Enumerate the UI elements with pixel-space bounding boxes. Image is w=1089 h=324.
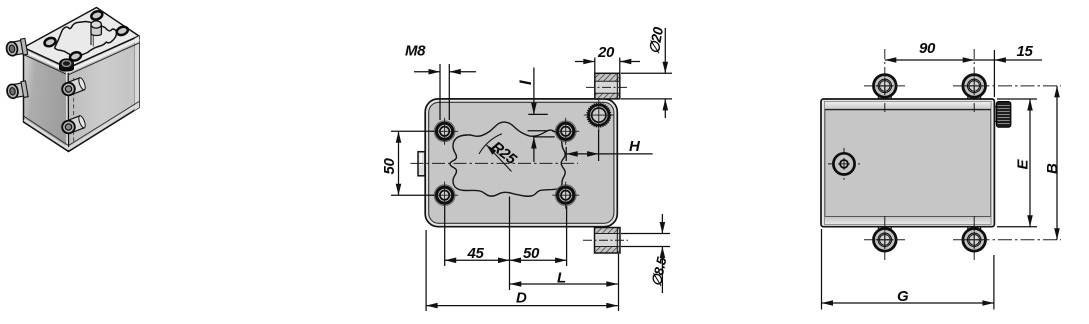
svg-text:L: L [557, 270, 566, 287]
svg-text:I: I [517, 80, 535, 85]
svg-text:20: 20 [597, 44, 615, 61]
svg-text:45: 45 [467, 245, 485, 262]
svg-text:50: 50 [381, 158, 398, 175]
svg-text:∅20: ∅20 [646, 25, 666, 55]
svg-text:H: H [629, 138, 641, 155]
svg-text:90: 90 [919, 40, 936, 57]
svg-text:M8: M8 [405, 43, 426, 60]
svg-text:G: G [897, 288, 909, 305]
svg-text:15: 15 [1017, 43, 1034, 60]
svg-text:B: B [1044, 163, 1061, 174]
svg-text:∅8.5: ∅8.5 [649, 255, 670, 287]
svg-text:E: E [1015, 159, 1032, 170]
svg-text:D: D [516, 290, 527, 307]
svg-text:50: 50 [523, 245, 540, 262]
